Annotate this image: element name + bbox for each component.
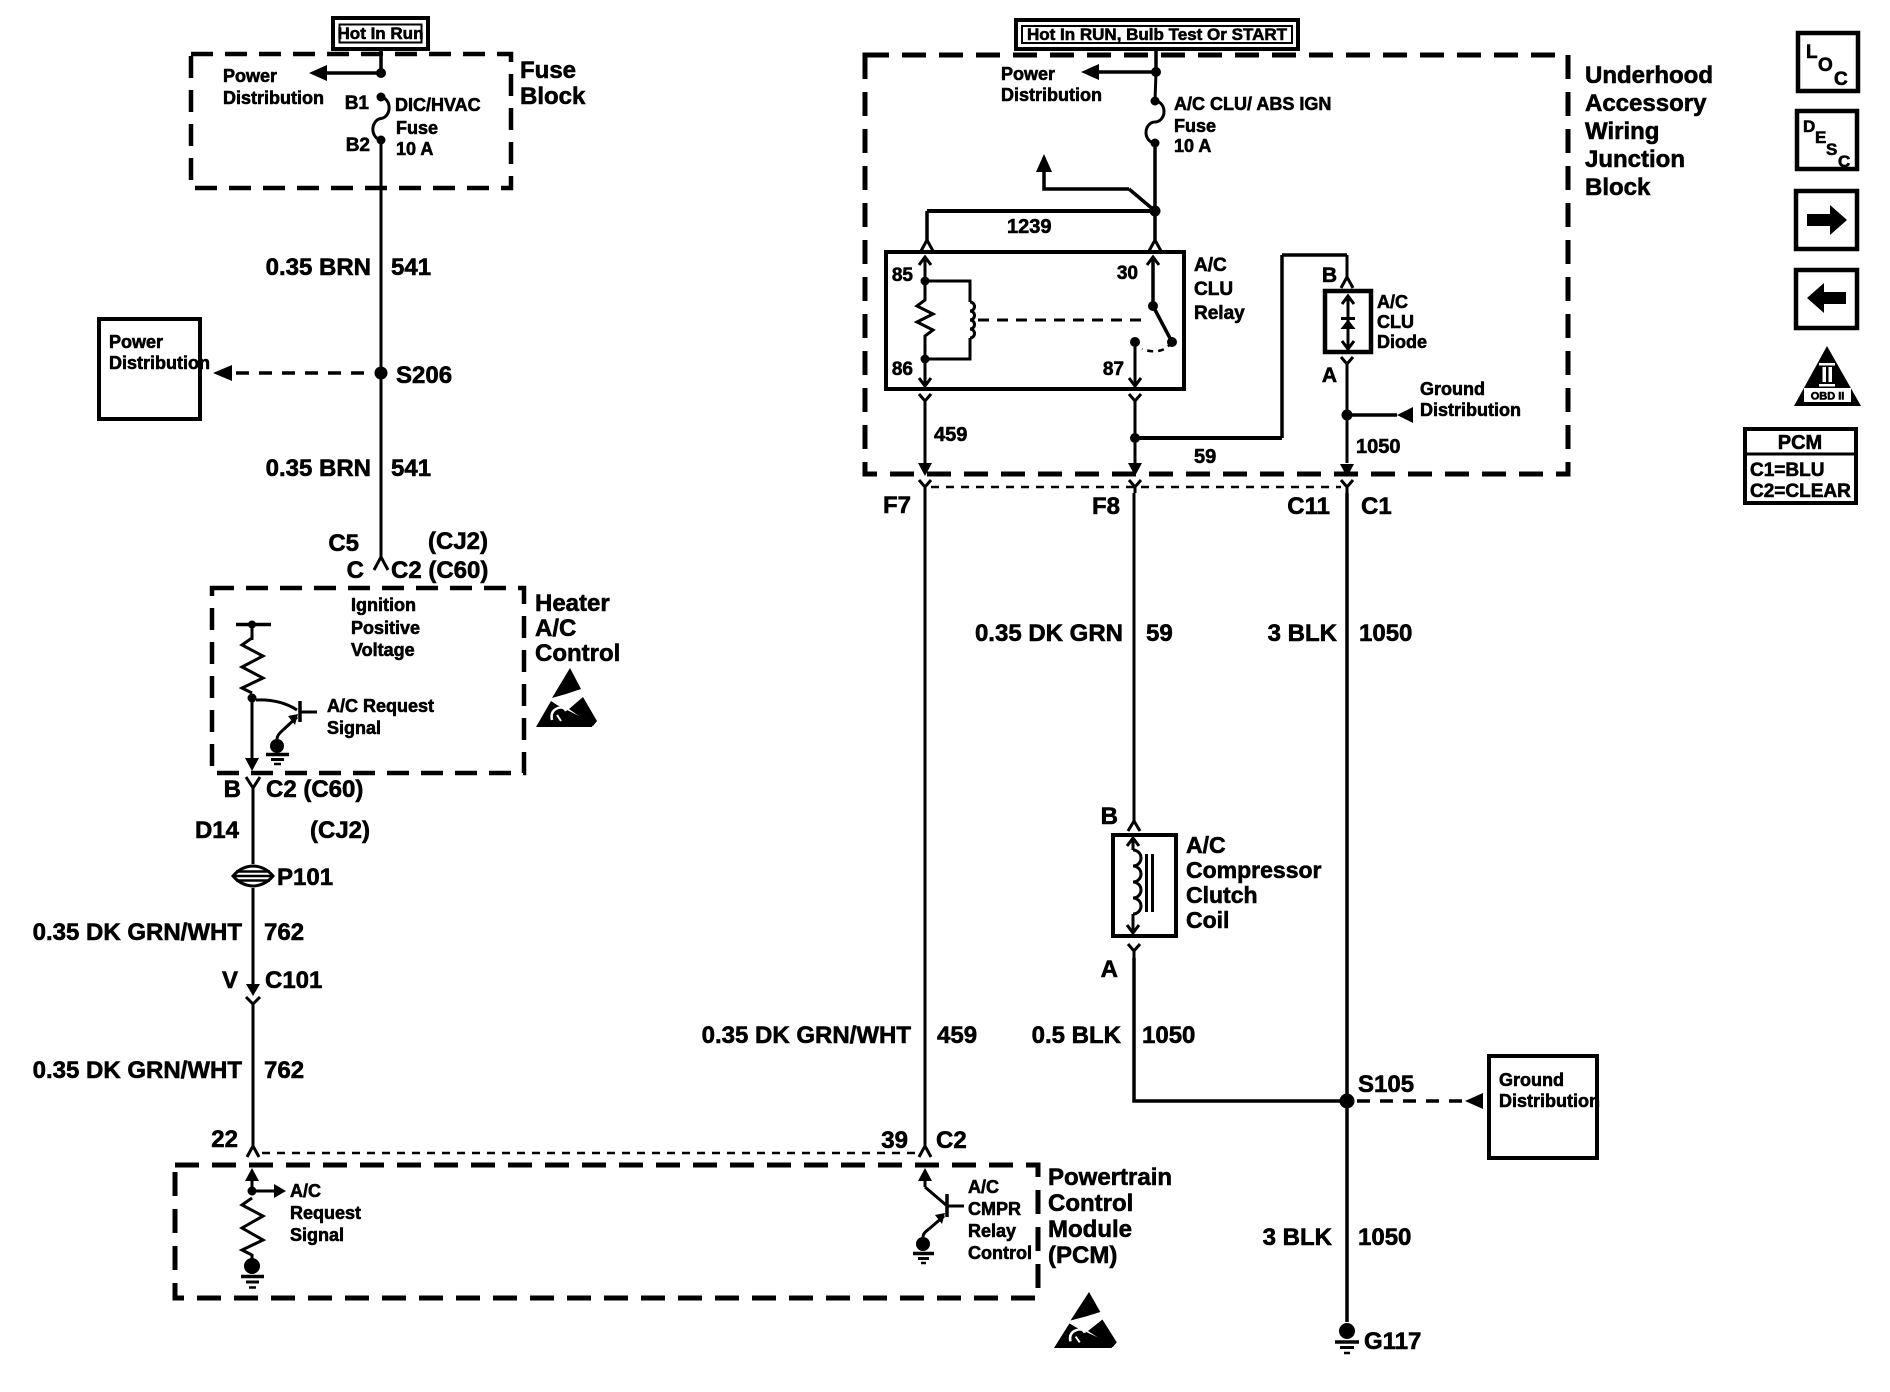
arrow into PCM pin 39	[918, 1168, 932, 1187]
wire 541: fuse to S206	[380, 140, 383, 373]
label 0.5 BLK 1050	[1032, 1022, 1196, 1049]
label Powertrain Control Module (PCM)	[1048, 1164, 1172, 1269]
svg-text:G117: G117	[1364, 1328, 1421, 1355]
splice P101	[233, 864, 333, 891]
svg-text:A/C: A/C	[1194, 255, 1227, 276]
svg-text:459: 459	[934, 424, 967, 446]
svg-text:L: L	[1806, 42, 1818, 63]
relay armature	[1142, 306, 1177, 351]
svg-text:C1=BLU: C1=BLU	[1750, 460, 1824, 481]
svg-text:Power: Power	[109, 332, 163, 352]
svg-text:Junction: Junction	[1585, 146, 1685, 173]
svg-text:(CJ2): (CJ2)	[428, 528, 488, 555]
wire 762: connector to P101	[252, 798, 255, 864]
svg-text:1050: 1050	[1358, 1224, 1411, 1251]
connector row F7 F8 C11 C1	[883, 480, 1392, 520]
node: heater signal junction	[248, 694, 257, 703]
wire 59: relay 87 to F8 and diode	[1128, 255, 1347, 476]
transistor (heater A/C request switch)	[256, 700, 317, 739]
node + arrow to Ground Distribution (junction block)	[1342, 379, 1522, 458]
wire 1239 horizontal	[927, 211, 1155, 240]
svg-text:Ground: Ground	[1499, 1070, 1564, 1090]
svg-text:459: 459	[937, 1022, 977, 1049]
node + arrow A/C Request Signal (PCM)	[248, 1181, 362, 1245]
svg-text:Distribution: Distribution	[223, 88, 324, 108]
svg-text:Distribution: Distribution	[1001, 85, 1102, 105]
title box Hot In RUN, Bulb Test Or START	[1016, 20, 1298, 49]
ground (heater internal)	[266, 739, 289, 764]
dashed arrow S206 to Power Distribution	[213, 365, 372, 381]
svg-text:0.35 DK GRN/WHT: 0.35 DK GRN/WHT	[33, 1057, 243, 1084]
ground (PCM left)	[241, 1254, 264, 1288]
svg-text:541: 541	[391, 455, 431, 482]
PCM module box (dashed)	[175, 1165, 1038, 1298]
svg-text:10 A: 10 A	[396, 139, 433, 159]
svg-text:D: D	[1803, 117, 1815, 136]
svg-text:Fuse: Fuse	[396, 118, 438, 138]
svg-text:C: C	[1834, 69, 1848, 90]
wire 762: P101 to C101	[252, 888, 255, 984]
svg-text:Control: Control	[1048, 1190, 1133, 1217]
svg-text:C11: C11	[1287, 493, 1330, 520]
svg-text:CLU: CLU	[1377, 312, 1414, 332]
svg-text:B2: B2	[346, 135, 370, 156]
resistor (heater pull-up)	[242, 638, 263, 693]
svg-text:1050: 1050	[1356, 436, 1401, 458]
label 0.35 DK GRN/WHT 762 (lower)	[33, 1057, 304, 1084]
svg-text:B: B	[224, 776, 241, 803]
splice S105	[1340, 1071, 1415, 1109]
svg-text:0.35 DK GRN/WHT: 0.35 DK GRN/WHT	[33, 919, 243, 946]
svg-text:A: A	[1101, 956, 1118, 983]
Heater A/C Control module box (dashed)	[212, 588, 524, 773]
svg-text:Hot In Run: Hot In Run	[338, 24, 424, 43]
svg-text:B1: B1	[345, 93, 370, 114]
svg-text:1050: 1050	[1359, 620, 1412, 647]
wire 459: F7 to PCM pin 39	[924, 493, 927, 1146]
Ground Distribution box	[1489, 1056, 1600, 1158]
wire 1050: diode to C1	[1346, 371, 1349, 463]
svg-text:OBD II: OBD II	[1811, 391, 1845, 403]
label 3 BLK 1050 (upper)	[1268, 620, 1413, 647]
svg-text:(PCM): (PCM)	[1048, 1242, 1117, 1269]
relay pin 85	[892, 257, 931, 286]
svg-text:1050: 1050	[1142, 1022, 1195, 1049]
svg-text:A/C: A/C	[1377, 292, 1408, 312]
svg-text:39: 39	[881, 1127, 908, 1154]
svg-text:A/C: A/C	[290, 1181, 321, 1201]
wire: fuse to 1239 node	[1153, 143, 1157, 211]
wire 541: S206 to C5	[380, 373, 383, 558]
relay resistor	[917, 285, 933, 355]
svg-text:Control: Control	[968, 1243, 1032, 1263]
connector B at diode	[1322, 264, 1353, 288]
svg-text:CLU: CLU	[1194, 279, 1233, 300]
wire 762: C101 to PCM	[252, 1004, 255, 1146]
svg-text:Positive: Positive	[351, 618, 420, 638]
svg-text:Accessory: Accessory	[1585, 90, 1707, 117]
wire 1050: coil A to S105	[1134, 958, 1341, 1101]
ignition positive voltage rail	[236, 595, 420, 660]
dotted link pin 22 to pin 39	[262, 1152, 916, 1155]
svg-text:Hot In RUN, Bulb Test Or START: Hot In RUN, Bulb Test Or START	[1027, 25, 1288, 44]
svg-text:DIC/HVAC: DIC/HVAC	[395, 95, 481, 115]
wire: heater output to connector	[245, 698, 259, 771]
svg-text:762: 762	[264, 919, 304, 946]
svg-text:Coil: Coil	[1186, 907, 1229, 933]
svg-text:A/C CLU/ ABS IGN: A/C CLU/ ABS IGN	[1174, 94, 1331, 114]
svg-text:A/C Request: A/C Request	[327, 696, 434, 716]
svg-text:3 BLK: 3 BLK	[1263, 1224, 1333, 1251]
svg-text:Relay: Relay	[968, 1221, 1016, 1241]
svg-text:Module: Module	[1048, 1216, 1132, 1243]
svg-text:Ignition: Ignition	[351, 595, 416, 615]
fuse block box (dashed)	[191, 54, 511, 188]
OBD II symbol	[1794, 346, 1861, 406]
A/C compressor clutch coil	[1113, 832, 1322, 936]
svg-text:B: B	[1101, 803, 1118, 830]
svg-text:(CJ2): (CJ2)	[310, 817, 370, 844]
svg-text:Fuse: Fuse	[1174, 116, 1216, 136]
svg-text:Request: Request	[290, 1203, 361, 1223]
svg-text:C1: C1	[1361, 493, 1392, 520]
connector into relay pin 30	[1149, 240, 1161, 251]
svg-text:A/C: A/C	[535, 615, 576, 642]
svg-text:PCM: PCM	[1778, 432, 1822, 454]
svg-text:Powertrain: Powertrain	[1048, 1164, 1172, 1191]
svg-text:S: S	[1826, 140, 1837, 159]
svg-text:541: 541	[391, 254, 431, 281]
svg-text:A/C: A/C	[1186, 832, 1226, 858]
label 3 BLK 1050 (lower)	[1263, 1224, 1412, 1251]
svg-text:C101: C101	[265, 967, 322, 994]
connector C5 / C2 (C60) (CJ2)	[328, 528, 488, 584]
svg-text:Voltage: Voltage	[351, 640, 415, 660]
A/C CLU relay box	[886, 252, 1245, 389]
wire 459: relay 86 to F7	[918, 394, 967, 476]
branch arrow up (power continues)	[1036, 154, 1155, 211]
svg-text:Distribution: Distribution	[1420, 400, 1521, 420]
wire fuse node to relay pin 30	[1153, 211, 1157, 240]
svg-text:0.35 BRN: 0.35 BRN	[266, 455, 371, 482]
svg-text:Signal: Signal	[290, 1225, 344, 1245]
svg-text:F7: F7	[883, 492, 911, 519]
transistor A/C CMPR relay control	[923, 1177, 1032, 1263]
node: fuse block feed junction	[376, 68, 386, 78]
svg-text:1239: 1239	[1007, 216, 1052, 238]
Power Distribution box (left)	[99, 319, 210, 419]
svg-text:A: A	[1322, 364, 1337, 387]
fuse DIC/HVAC 10A (B1-B2)	[345, 93, 481, 160]
wire: Hot In Run feed	[379, 49, 383, 73]
relay actuation dashed line	[978, 319, 1146, 322]
arrow into PCM pin 22	[245, 1168, 259, 1191]
svg-text:22: 22	[211, 1126, 238, 1153]
connector into relay pin 85 branch	[921, 240, 933, 251]
label Heater A/C Control	[535, 590, 620, 667]
connector pin 39 / C2	[881, 1127, 966, 1157]
svg-text:Underhood: Underhood	[1585, 62, 1713, 89]
relay pin 87	[1103, 337, 1141, 386]
label A/C Request Signal (heater)	[327, 696, 434, 738]
arrow to Power Distribution (fuse block)	[223, 65, 381, 108]
svg-text:Block: Block	[1585, 174, 1651, 201]
connector A at diode	[1322, 357, 1353, 387]
label Underhood Accessory Wiring Junction Block	[1585, 62, 1713, 201]
svg-text:0.35 DK GRN/WHT: 0.35 DK GRN/WHT	[702, 1022, 912, 1049]
svg-text:30: 30	[1117, 263, 1138, 284]
svg-text:V: V	[222, 967, 238, 994]
LOC icon	[1798, 33, 1858, 91]
svg-text:B: B	[1322, 264, 1337, 287]
label 0.35 DK GRN 59	[975, 620, 1173, 647]
relay coil	[925, 281, 975, 359]
relay pin 86	[892, 355, 931, 387]
connector B / C2 (C60), D14 (CJ2)	[195, 776, 370, 844]
ground (PCM right)	[913, 1237, 934, 1263]
dashed arrow S105 to Ground Distribution	[1357, 1093, 1483, 1109]
svg-text:O: O	[1818, 55, 1833, 76]
svg-text:C: C	[1838, 152, 1850, 171]
ground G117	[1335, 1323, 1421, 1355]
svg-text:86: 86	[892, 359, 913, 380]
PCM connector legend table	[1745, 429, 1856, 503]
svg-text:Wiring: Wiring	[1585, 118, 1659, 145]
svg-text:0.35 BRN: 0.35 BRN	[266, 254, 371, 281]
back arrow icon	[1796, 270, 1857, 328]
svg-text:3 BLK: 3 BLK	[1268, 620, 1338, 647]
connector A at clutch coil	[1101, 944, 1140, 983]
connector V / C101	[222, 967, 322, 1004]
arrow to Power Distribution (junction block)	[1001, 64, 1156, 105]
svg-text:Relay: Relay	[1194, 303, 1245, 324]
svg-text:Signal: Signal	[327, 718, 381, 738]
label Fuse Block	[520, 57, 586, 110]
splice S206	[375, 362, 453, 389]
label 0.35 DK GRN/WHT 762 (upper)	[33, 919, 304, 946]
svg-text:10 A: 10 A	[1174, 136, 1211, 156]
DESC icon	[1797, 111, 1857, 171]
label 0.35 BRN 541 (lower)	[266, 455, 431, 482]
svg-text:C5: C5	[328, 530, 359, 557]
svg-text:S206: S206	[396, 362, 452, 389]
wire: junction block feed	[1154, 49, 1158, 73]
ESD symbol (heater)	[536, 668, 597, 727]
svg-text:Distribution: Distribution	[1499, 1091, 1600, 1111]
wire 1050: C1 to G117	[1345, 493, 1349, 1322]
svg-text:Power: Power	[1001, 64, 1055, 84]
title box Hot In Run	[333, 18, 428, 49]
svg-text:87: 87	[1103, 359, 1124, 380]
connector pin 22	[211, 1126, 259, 1157]
svg-text:Control: Control	[535, 640, 620, 667]
svg-text:85: 85	[892, 265, 914, 286]
svg-text:E: E	[1815, 128, 1826, 147]
svg-text:A/C: A/C	[968, 1177, 999, 1197]
A/C CLU diode	[1325, 291, 1427, 352]
svg-text:C2 (C60): C2 (C60)	[266, 776, 363, 803]
svg-text:Fuse: Fuse	[520, 57, 576, 84]
arrow out at C1 edge	[1340, 464, 1354, 477]
node: 1239 junction	[1150, 206, 1161, 217]
ESD symbol (PCM)	[1054, 1292, 1117, 1348]
connector B at clutch coil	[1101, 803, 1140, 831]
svg-text:D14: D14	[195, 817, 240, 844]
svg-text:C: C	[347, 557, 364, 584]
svg-text:Heater: Heater	[535, 590, 610, 617]
svg-text:CMPR: CMPR	[968, 1199, 1021, 1219]
svg-text:59: 59	[1146, 620, 1173, 647]
svg-text:S105: S105	[1358, 1071, 1414, 1098]
relay pin 30	[1117, 257, 1159, 311]
svg-text:0.5 BLK: 0.5 BLK	[1032, 1022, 1122, 1049]
label 0.35 DK GRN/WHT 459	[702, 1022, 977, 1049]
forward arrow icon	[1796, 191, 1857, 249]
node: feed junction	[1151, 67, 1161, 77]
resistor (PCM input)	[242, 1198, 263, 1255]
fuse A/C CLU / ABS IGN 10A	[1146, 72, 1331, 156]
svg-text:F8: F8	[1092, 493, 1120, 520]
svg-text:Power: Power	[223, 66, 277, 86]
svg-text:C2 (C60): C2 (C60)	[391, 557, 488, 584]
svg-text:762: 762	[264, 1057, 304, 1084]
svg-text:Compressor: Compressor	[1186, 857, 1322, 883]
wire 59: F8 to clutch coil	[1133, 493, 1136, 818]
svg-text:59: 59	[1194, 446, 1216, 468]
svg-text:C2: C2	[936, 1127, 967, 1154]
svg-text:0.35 DK GRN: 0.35 DK GRN	[975, 620, 1123, 647]
label 0.35 BRN 541 (upper)	[266, 254, 431, 281]
underhood junction block box (dashed)	[865, 55, 1568, 474]
svg-text:Ground: Ground	[1420, 379, 1485, 399]
svg-text:C2=CLEAR: C2=CLEAR	[1750, 481, 1851, 502]
svg-text:Diode: Diode	[1377, 332, 1427, 352]
svg-text:Distribution: Distribution	[109, 353, 210, 373]
svg-text:Clutch: Clutch	[1186, 882, 1258, 908]
svg-text:Block: Block	[520, 83, 586, 110]
svg-text:P101: P101	[277, 864, 333, 891]
